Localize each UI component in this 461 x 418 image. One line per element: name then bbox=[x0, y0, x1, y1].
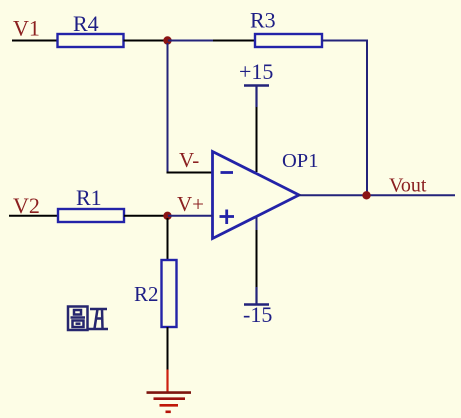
wire to inverting input bbox=[167, 172, 213, 174]
resistor R3 bbox=[255, 34, 322, 47]
wire V2 to R1 bbox=[9, 215, 58, 217]
wire V1 to R4 bbox=[12, 40, 57, 42]
wire +15 to op-amp top bbox=[256, 107, 258, 172]
svg-text:Vout: Vout bbox=[389, 175, 427, 197]
wire node A to R3 (blue stub) bbox=[168, 40, 213, 42]
node A junction dot bbox=[163, 36, 171, 44]
svg-text:+15: +15 bbox=[239, 59, 273, 84]
caption 圖五 (figure five) drawn glyphs bbox=[68, 307, 108, 331]
wire to -15 bbox=[256, 230, 258, 287]
svg-text:R2: R2 bbox=[134, 282, 159, 306]
wire op-amp bottom stub bbox=[256, 217, 258, 230]
svg-text:R1: R1 bbox=[76, 185, 102, 210]
op-amp U1 OP1 triangle bbox=[213, 152, 300, 239]
svg-text:-15: -15 bbox=[243, 302, 272, 327]
wire right vertical to output node bbox=[366, 40, 368, 196]
svg-text:R3: R3 bbox=[250, 8, 276, 33]
wire node B down to R2 bbox=[167, 218, 169, 260]
wire to R3 bbox=[213, 40, 255, 42]
svg-text:V1: V1 bbox=[13, 16, 40, 41]
power +15 stub bbox=[255, 86, 257, 108]
resistor R2 bbox=[162, 260, 177, 327]
svg-text:OP1: OP1 bbox=[282, 150, 318, 172]
wire R3 to right corner bbox=[322, 40, 368, 42]
wire R2 to ground bbox=[167, 327, 169, 370]
resistor R4 bbox=[58, 34, 124, 47]
wire R1 to node B bbox=[124, 215, 168, 217]
power -15 bar bbox=[244, 303, 269, 306]
svg-text:V2: V2 bbox=[13, 193, 40, 218]
resistor R1 bbox=[58, 209, 124, 222]
svg-text:V+: V+ bbox=[177, 192, 204, 216]
wire node A down to V- bbox=[167, 43, 169, 174]
wire output bbox=[298, 194, 455, 196]
power +15 bar bbox=[244, 84, 269, 87]
wire R4 to node A bbox=[124, 40, 169, 42]
wire node B to noninverting input bbox=[168, 215, 213, 217]
node B junction dot bbox=[163, 212, 171, 220]
ground symbol bbox=[147, 393, 192, 412]
svg-text:R4: R4 bbox=[73, 11, 99, 36]
svg-text:V-: V- bbox=[179, 148, 199, 172]
op-amp plus input symbol bbox=[220, 210, 235, 225]
op-amp minus input symbol bbox=[221, 171, 234, 174]
node Vout junction dot bbox=[362, 191, 370, 199]
power -15 stub bbox=[255, 287, 257, 305]
ground lead (red) bbox=[166, 370, 168, 393]
